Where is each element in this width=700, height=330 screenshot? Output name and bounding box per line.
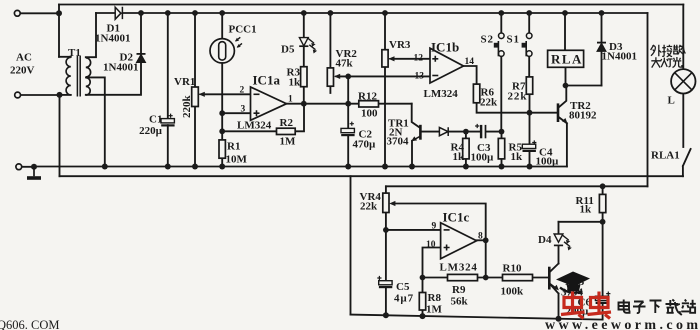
wire VR3 column <box>384 13 386 167</box>
wire IC1a output row to R12 <box>287 103 412 105</box>
ground <box>33 167 35 177</box>
diode D3 <box>597 44 606 52</box>
svg-text:470µ: 470µ <box>353 139 377 151</box>
transformer T1 secondary winding upper <box>86 58 91 77</box>
resistor R10 <box>503 274 533 280</box>
svg-text:1N4001: 1N4001 <box>602 51 637 63</box>
transistor Q1 TR1 <box>411 125 420 142</box>
watermark mortarboard cap <box>556 272 590 293</box>
label external lamp chinese line1 外接散 <box>651 45 686 57</box>
op-amp IC1b minus input sign <box>432 75 438 77</box>
node earth junction <box>31 164 37 170</box>
wire return rail <box>60 175 684 177</box>
potentiometer VR4 <box>383 193 396 212</box>
svg-text:R9: R9 <box>452 284 466 296</box>
wire lamp branch vertical <box>682 5 684 70</box>
wire TR1 base drop <box>412 104 421 128</box>
node C2 bottom at ground <box>345 164 351 170</box>
svg-text:1k: 1k <box>289 77 302 89</box>
resistor R5 <box>498 138 504 159</box>
svg-text:R1: R1 <box>227 141 240 153</box>
wire C1 column <box>167 13 169 167</box>
op-amp U1a IC1a <box>251 87 287 120</box>
wire VR1 column <box>194 13 196 167</box>
resistor R6 <box>473 84 479 103</box>
photocell PCC1 <box>210 37 242 63</box>
wire primary bottom jog <box>60 94 71 96</box>
node R11 bottom D4 junction <box>600 219 606 225</box>
watermark text 电子下载站 <box>619 300 696 316</box>
wire lamp to RLA1 contact <box>682 93 684 147</box>
node C4 bottom at ground <box>527 164 533 170</box>
svg-text:220k: 220k <box>181 95 193 119</box>
svg-text:R10: R10 <box>503 263 522 275</box>
transistor Q2 TR2 <box>558 103 568 123</box>
node R11 top on supply line <box>600 183 606 189</box>
wire IC1c output <box>477 239 486 241</box>
wire TR2 emitter to ground-rail end <box>559 117 567 166</box>
node S2 top on +V rail <box>498 10 504 16</box>
node TR1 emitter at ground <box>409 164 415 170</box>
resistor R9 <box>448 274 478 280</box>
node TR1 diode R4 junction <box>463 129 469 135</box>
node IC1c pin10 junction <box>420 275 426 281</box>
svg-text:www.eeworm.com: www.eeworm.com <box>545 318 700 330</box>
node R8 bottom <box>420 313 426 319</box>
wire C3 row <box>466 131 502 133</box>
diode after TR1 <box>439 127 448 136</box>
resistor R1 <box>219 140 225 158</box>
node D3 top on +V rail <box>599 10 605 16</box>
wire D3 bottom link to relay junction <box>566 85 602 87</box>
wire C6 column <box>602 222 604 320</box>
wire primary top jog <box>59 56 71 58</box>
wire PCC1 column <box>221 13 223 131</box>
svg-text:S 2: S 2 <box>481 34 494 46</box>
resistor R7 <box>526 77 532 94</box>
lamp L <box>671 69 695 93</box>
node RLA bottom TR2 collector junction <box>563 83 569 89</box>
wire +V rail from D1 cathode to right corner <box>122 12 647 14</box>
node R5 bottom at ground <box>499 164 505 170</box>
node R4 bottom at ground <box>463 164 469 170</box>
wire VR4 wiper feedback to pin8 column <box>395 204 486 278</box>
wire D5 R3 column <box>303 13 305 104</box>
transformer T1 primary winding <box>66 57 71 95</box>
wire C2 link column <box>347 76 349 166</box>
svg-text:100µ: 100µ <box>536 156 560 168</box>
svg-text:1M: 1M <box>426 304 443 316</box>
svg-text:22k: 22k <box>360 201 378 213</box>
terminal AC live <box>14 10 20 16</box>
node C5 bottom <box>383 312 389 318</box>
svg-text:VR3: VR3 <box>389 39 411 51</box>
svg-text:3: 3 <box>241 105 246 115</box>
node C3 R5 junction <box>499 129 505 135</box>
op-amp IC1b plus input sign <box>432 56 438 62</box>
node D2 cathode on +V rail <box>138 10 144 16</box>
wire C5 column <box>385 230 387 315</box>
node R2 tap <box>219 128 225 134</box>
node AC live junction <box>56 10 62 16</box>
transformer T1 core <box>77 56 80 97</box>
svg-text:IC1c: IC1c <box>443 210 470 225</box>
capacitor C1 <box>161 114 175 126</box>
svg-text:22k: 22k <box>480 97 498 109</box>
wire secondary centre tap to ground <box>86 77 105 166</box>
wire C4 column <box>529 113 531 167</box>
wire lower section left vertical <box>350 176 352 314</box>
svg-text:PCC1: PCC1 <box>229 24 257 36</box>
wire TR1 emitter to ground <box>411 141 413 167</box>
node VR1 bottom at ground <box>192 164 198 170</box>
svg-text:R8: R8 <box>428 292 442 304</box>
wire top outer AC-live rail <box>59 4 683 6</box>
resistor R12 <box>359 101 379 107</box>
wire VR4 bottom to pin9 junction <box>385 213 387 230</box>
node VR2 top on +V rail <box>328 10 334 16</box>
capacitor C5 <box>377 276 392 287</box>
svg-text:10M: 10M <box>226 154 248 166</box>
svg-text:1k: 1k <box>511 151 524 163</box>
wire D1 anode lead <box>96 12 115 14</box>
wire D3 column <box>601 13 603 86</box>
op-amp IC1c plus input sign <box>444 245 450 251</box>
potentiometer VR3 <box>382 50 395 67</box>
transformer T1 secondary winding lower <box>86 78 90 96</box>
wire R11 column <box>602 186 604 222</box>
wire AC live terminal lead <box>20 5 59 57</box>
svg-text:1N4001: 1N4001 <box>103 62 138 74</box>
op-amp U1c IC1c <box>441 223 477 259</box>
capacitor C4 <box>522 140 536 151</box>
svg-text:12: 12 <box>414 54 424 64</box>
wire R7 bottom <box>529 94 531 113</box>
wire VR2 wiper to IC1b pin13 <box>341 75 430 77</box>
svg-text:14: 14 <box>465 57 475 67</box>
relay coil RLA <box>548 50 584 67</box>
capacitor C6 <box>595 292 610 303</box>
node IC1a output <box>301 101 307 107</box>
op-amp IC1c minus input sign <box>444 229 450 231</box>
svg-text:LM324: LM324 <box>424 88 459 100</box>
potentiometer VR1 <box>192 87 206 107</box>
svg-text:S 1: S 1 <box>507 34 520 46</box>
wire S2 column <box>500 13 502 132</box>
svg-text:R12: R12 <box>358 91 377 103</box>
svg-text:100k: 100k <box>501 286 525 298</box>
node RLA top on +V rail <box>562 10 568 16</box>
watermark bug character 2 <box>588 292 612 319</box>
wire lower supply line <box>386 185 648 187</box>
wire IC1c pin10 lead <box>423 248 441 278</box>
wire R6 bottom to TR2 base row <box>477 103 557 113</box>
svg-text:9: 9 <box>432 222 437 232</box>
op-amp U1b IC1b <box>430 48 464 83</box>
terminal earth <box>16 164 22 170</box>
node TR3 emitter bottom <box>556 316 562 322</box>
wire AC neutral lead and down to return rail <box>20 95 60 176</box>
svg-text:LM324: LM324 <box>237 120 272 132</box>
node IC1a pin3 tap <box>219 110 225 116</box>
wire TR1 collector row to R4 junction <box>422 131 466 133</box>
wire secondary bottom to D2 <box>86 62 141 95</box>
wire TR2 collector <box>559 86 567 108</box>
diode D2 <box>137 55 146 63</box>
svg-text:1k: 1k <box>453 151 466 163</box>
wire lower section bottom line <box>351 315 603 320</box>
wire TR3 collector <box>550 264 559 272</box>
wire IC1b output pin14 to R6 <box>464 66 477 84</box>
svg-text:3704: 3704 <box>387 136 410 148</box>
svg-text:R2: R2 <box>280 117 294 129</box>
wire RLA coil column <box>564 13 567 86</box>
svg-text:IC1a: IC1a <box>253 73 281 88</box>
svg-text:1M: 1M <box>280 136 297 148</box>
node VR4 bottom pin9 junction <box>383 227 389 233</box>
node S1 top on +V rail <box>526 10 532 16</box>
capacitor C2 <box>341 122 355 136</box>
wire R8 column <box>422 278 424 317</box>
wire D2 cathode to +V rail <box>140 13 142 54</box>
wire RLA1 contact blade <box>683 149 691 176</box>
wire VR2 column <box>329 13 331 93</box>
wire R2 feedback row <box>222 104 304 132</box>
node VR3 top on +V rail <box>382 10 388 16</box>
wire right-side +V drop to lower section <box>647 13 649 186</box>
svg-text:13: 13 <box>415 72 425 82</box>
potentiometer VR2 <box>327 68 340 86</box>
svg-text:Q606. COM: Q606. COM <box>0 318 60 330</box>
svg-text:C5: C5 <box>396 281 410 293</box>
resistor R3 <box>301 67 307 87</box>
terminal AC neutral <box>15 92 21 98</box>
svg-text:10: 10 <box>426 240 436 250</box>
op-amp IC1a plus input sign <box>254 110 260 116</box>
wire R5 column <box>501 132 503 167</box>
switch S1 <box>522 33 532 56</box>
resistor R2 <box>277 128 296 134</box>
wire IC1c pin9 lead <box>386 229 441 231</box>
svg-text:IC1b: IC1b <box>431 40 459 55</box>
svg-text:D4: D4 <box>538 234 552 246</box>
svg-text:4 µ 7: 4 µ 7 <box>394 293 414 305</box>
node R1 bottom at ground <box>219 164 225 170</box>
svg-text:56k: 56k <box>451 296 469 308</box>
resistor R8 <box>419 293 425 311</box>
node R7 C4 TR2-base junction <box>527 110 533 116</box>
wire R4 column <box>465 132 467 167</box>
diode D1 <box>115 7 122 19</box>
wire TR3 emitter <box>550 284 559 319</box>
svg-text:RLA1: RLA1 <box>651 150 680 162</box>
node R9 R10 feedback junction <box>483 275 489 281</box>
svg-text:80192: 80192 <box>569 110 597 122</box>
op-amp IC1a minus input sign <box>254 93 260 95</box>
svg-text:8: 8 <box>478 232 483 242</box>
watermark bug character 1 <box>561 292 585 319</box>
wire R10 row to TR3 base <box>486 277 549 279</box>
node AC neutral junction <box>57 92 63 98</box>
svg-text:1k: 1k <box>580 204 593 216</box>
svg-text:L: L <box>668 95 675 107</box>
node C2 top junction <box>345 101 351 107</box>
resistor R4 <box>463 138 469 159</box>
wire D4 column <box>558 222 560 264</box>
wire R9 row <box>423 277 486 279</box>
resistor R11 <box>599 194 605 212</box>
node C1 bottom at ground <box>165 164 171 170</box>
wire S1 column to R7 <box>528 13 530 77</box>
wire VR1 wiper to IC1a pin2 <box>206 93 251 95</box>
node IC1c output pin8 junction <box>483 237 489 243</box>
svg-text:47k: 47k <box>336 58 354 70</box>
svg-text:AC: AC <box>16 52 32 64</box>
wire R1 column <box>221 131 223 166</box>
wire R11 bottom to D4 column <box>559 221 603 223</box>
wire secondary top riser to D1 <box>86 13 96 57</box>
wire earth terminal lead <box>22 166 35 168</box>
node VR2 wiper junction <box>345 74 351 80</box>
svg-text:100: 100 <box>361 108 378 120</box>
node C1 top on +V rail <box>165 10 171 16</box>
svg-text:220V: 220V <box>10 65 35 77</box>
node VR1 top on +V rail <box>192 10 198 16</box>
svg-text:2: 2 <box>240 86 245 96</box>
node PCC1 top on +V rail <box>219 10 225 16</box>
LED D4 <box>554 234 572 251</box>
node transformer tap at ground <box>102 164 108 170</box>
transistor Q3 TR3 <box>549 267 559 291</box>
svg-text:1N4001: 1N4001 <box>95 33 130 45</box>
svg-text:D5: D5 <box>281 44 295 56</box>
svg-text:100µ: 100µ <box>471 152 495 164</box>
svg-text:1: 1 <box>288 95 293 105</box>
LED D5 <box>299 38 317 54</box>
svg-text:VR1: VR1 <box>174 76 195 88</box>
node VR3 bottom at ground <box>382 164 388 170</box>
svg-text:LM324: LM324 <box>440 262 478 274</box>
wire VR4 top stub <box>385 186 387 193</box>
capacitor C3 <box>475 124 485 138</box>
wire IC1a pin3 lead <box>222 112 250 114</box>
svg-text:RLA: RLA <box>551 52 583 67</box>
switch S2 <box>494 33 504 56</box>
svg-text:2 2 k: 2 2 k <box>508 91 528 103</box>
svg-text:220µ: 220µ <box>139 125 163 137</box>
node D5 top on +V rail <box>301 10 307 16</box>
wire ground rail <box>34 166 567 168</box>
label external lamp chinese line2 大灯光 <box>651 57 682 68</box>
svg-text:C1: C1 <box>149 114 162 126</box>
wire VR3 wiper to IC1b pin12 <box>392 58 430 60</box>
svg-text:T1: T1 <box>68 47 81 59</box>
